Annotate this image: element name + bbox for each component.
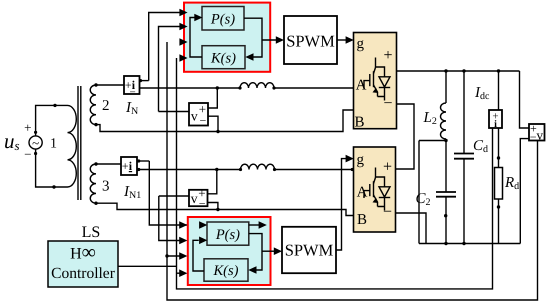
transformer core bbox=[78, 86, 81, 200]
wire P to K feedback bottom bbox=[249, 234, 262, 270]
block K(s) bottom bbox=[204, 259, 248, 281]
wire SPWM top to gate g bbox=[337, 39, 350, 41]
capacitor Cd bbox=[463, 71, 465, 154]
wire bus V2 lower (v-bottom signal to bottom controller) bbox=[159, 196, 185, 241]
LS H-infinity controller box bbox=[48, 241, 118, 287]
wire bottom controller output to SPWM bbox=[262, 250, 278, 252]
current sensor Idc branch bbox=[498, 71, 500, 110]
wire L2 bottom node bbox=[419, 139, 446, 244]
svg-text:SPWM: SPWM bbox=[285, 241, 334, 260]
node dot source top bbox=[53, 104, 56, 107]
wire winding2 top to current sensor bbox=[96, 84, 124, 86]
voltage sensor v bottom bbox=[189, 186, 208, 211]
wire dc bottom bus bbox=[419, 243, 520, 245]
arrowhead into P top bbox=[194, 14, 202, 22]
current sensor IN box bbox=[124, 76, 140, 99]
svg-text:K(s): K(s) bbox=[210, 51, 236, 67]
wire bus V2 upper (v-top signal to top controller) bbox=[159, 27, 184, 112]
SPWM box top bbox=[284, 16, 337, 64]
svg-text:SPWM: SPWM bbox=[286, 32, 335, 51]
wire A-phase top bbox=[140, 87, 354, 89]
arrowhead into K bottom bbox=[248, 266, 256, 274]
svg-text:v: v bbox=[191, 110, 198, 125]
converter U2 (bottom H-bridge) bbox=[354, 147, 396, 232]
wire V3 tap to bottom box bbox=[167, 255, 185, 257]
node dot source minus terminal bbox=[34, 152, 37, 155]
wire controller output bbox=[118, 265, 177, 267]
wire v-top signal bbox=[159, 111, 190, 113]
SPWM box bottom bbox=[282, 227, 336, 273]
svg-text:LS: LS bbox=[82, 224, 101, 241]
wire V4 arrow jog into bottom box bbox=[177, 272, 185, 274]
wire top converter minus to bottom converter plus bbox=[396, 104, 415, 169]
wire SPWM bottom to gate g bottom bbox=[336, 159, 350, 250]
IGBT Q2 with diode (bottom converter) bbox=[364, 168, 390, 211]
transformer winding 1 bbox=[68, 105, 77, 187]
inductor L2 branch bbox=[445, 71, 447, 103]
arrowhead loop into P bottom bbox=[199, 237, 207, 245]
svg-text:B: B bbox=[354, 115, 364, 131]
wire source bottom bbox=[36, 149, 68, 187]
svg-text:g: g bbox=[357, 152, 365, 168]
arrowhead into P bottom (from external line) bbox=[199, 221, 207, 229]
controller red box top bbox=[184, 3, 270, 72]
arrowhead into K top bbox=[245, 53, 253, 61]
wire v dc minus to bottom bus bbox=[520, 139, 529, 244]
wire dc plus bus bbox=[397, 70, 520, 72]
transformer winding 2 bbox=[90, 85, 96, 125]
svg-text:3: 3 bbox=[102, 179, 110, 195]
current sensor Idc box bbox=[489, 110, 502, 130]
svg-text:+: + bbox=[24, 120, 31, 135]
svg-text:v: v bbox=[191, 192, 198, 207]
wire bus V1 upper (IN signal to top controller) bbox=[149, 13, 184, 81]
svg-text:−: − bbox=[200, 114, 207, 128]
wire K to P feedback top bbox=[190, 18, 202, 58]
wire top controller output to SPWM bbox=[262, 39, 280, 41]
wire P to K feedback top bbox=[244, 18, 262, 57]
wire A-phase bottom bbox=[137, 169, 354, 171]
svg-text:+: + bbox=[383, 159, 392, 176]
wire v-bottom signal bbox=[159, 195, 189, 197]
inductor bottom bbox=[241, 164, 275, 169]
wire bottom converter minus bbox=[396, 213, 427, 244]
input arrowheads bottom red box bbox=[179, 221, 187, 229]
block P(s) top bbox=[202, 7, 244, 31]
input arrowheads top red box bbox=[179, 9, 187, 17]
svg-text:+: + bbox=[122, 159, 129, 173]
block K(s) top bbox=[202, 46, 245, 69]
wire bus V3 (dc voltage feedback) bbox=[167, 42, 538, 300]
svg-text:g: g bbox=[357, 36, 365, 52]
svg-text:i: i bbox=[494, 119, 497, 130]
wire bus V1 lower (IN1 signal to bottom controller) bbox=[149, 161, 198, 225]
voltage sensor v top bbox=[189, 102, 208, 128]
wire IN1 signal stub bbox=[137, 160, 149, 162]
svg-text:−: − bbox=[199, 197, 206, 211]
wire Idc to Rd bbox=[498, 128, 500, 244]
svg-text:P(s): P(s) bbox=[215, 227, 240, 243]
wire source top bbox=[36, 105, 68, 136]
svg-text:−: − bbox=[24, 147, 31, 162]
transformer winding 3 bbox=[90, 164, 96, 203]
svg-text:~: ~ bbox=[32, 136, 39, 151]
wire IN signal stub bbox=[140, 80, 149, 82]
node dot source plus terminal bbox=[34, 131, 37, 134]
controller red box bottom bbox=[188, 217, 271, 285]
svg-text:v: v bbox=[537, 128, 544, 143]
current sensor IN1 box bbox=[121, 157, 137, 175]
wire v-top + stub bbox=[208, 88, 217, 108]
arrow P(s) output marker bottom bbox=[249, 224, 260, 226]
inductor top bbox=[240, 83, 274, 88]
svg-text:2: 2 bbox=[102, 98, 110, 114]
wire B-phase bottom bbox=[96, 203, 354, 215]
block P(s) bottom bbox=[207, 222, 249, 245]
svg-text:P(s): P(s) bbox=[210, 12, 235, 28]
svg-text:A: A bbox=[357, 185, 368, 201]
wire dc plus to v sensor bbox=[520, 71, 530, 128]
wire B-phase top bbox=[96, 110, 354, 132]
svg-text:H∞: H∞ bbox=[70, 242, 96, 264]
svg-text:−: − bbox=[530, 130, 537, 144]
converter U1 (top H-bridge) bbox=[354, 33, 397, 131]
svg-text:1: 1 bbox=[50, 137, 57, 152]
svg-text:−: − bbox=[130, 87, 136, 99]
IGBT Q1 with diode (top converter) bbox=[364, 58, 390, 101]
svg-text:K(s): K(s) bbox=[213, 263, 239, 279]
capacitor C2 bbox=[436, 192, 456, 197]
svg-text:B: B bbox=[357, 212, 367, 228]
voltage source us bbox=[24, 120, 42, 162]
wire winding3 top to current sensor bbox=[96, 163, 121, 165]
node dot source bottom bbox=[52, 185, 55, 188]
svg-text:Controller: Controller bbox=[51, 265, 116, 282]
wire K to P feedback bottom bbox=[193, 240, 204, 271]
svg-text:+: + bbox=[383, 47, 392, 64]
wire v-top - stub bbox=[208, 116, 218, 131]
resistor Rd bbox=[495, 168, 503, 200]
inductor L2 bbox=[441, 103, 447, 139]
voltage sensor v dc bbox=[529, 122, 545, 145]
wire v-bottom + stub bbox=[208, 170, 217, 194]
wire v-bottom - stub bbox=[208, 203, 218, 210]
wire bus V4 (controller output / Idc line) bbox=[177, 58, 493, 289]
